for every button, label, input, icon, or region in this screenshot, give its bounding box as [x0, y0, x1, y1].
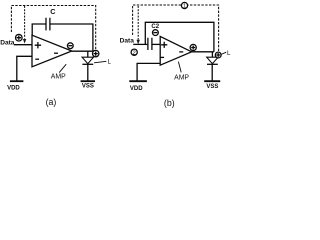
svg-text:(a): (a) [46, 97, 57, 107]
op-amp U1 triangle (a) [32, 35, 72, 67]
svg-text:VSS: VSS [82, 83, 94, 89]
svg-text:Data: Data [120, 38, 135, 45]
VDD rail bar (b) [129, 80, 147, 82]
svg-text:1: 1 [183, 4, 186, 10]
wire output (a) [72, 50, 93, 52]
capacitor C2 plates (b) [148, 38, 152, 50]
LED cathode bar (b) [207, 63, 218, 65]
svg-text:VDD: VDD [130, 86, 143, 92]
minus input symbol (a) [35, 58, 39, 60]
circled-plus node at LED (b) [215, 52, 221, 58]
VDD rail bar (a) [10, 80, 24, 82]
svg-text:AMP: AMP [51, 73, 66, 80]
VSS rail bar (a) [81, 80, 95, 82]
minus input wire (a) [17, 56, 32, 81]
dashed enclosure box (b) [133, 5, 219, 52]
LED L diode triangle (a) [82, 57, 93, 64]
plus input symbol (a) [35, 42, 41, 48]
LED wire down (b) [211, 52, 213, 57]
VSS rail bar (b) [204, 80, 220, 82]
circled-plus node at output (b) [190, 44, 196, 50]
plus input symbol (b) [161, 42, 167, 48]
node marker circled-2 below Data wire (b) [131, 49, 137, 56]
LED cathode bar (a) [82, 63, 93, 65]
capacitor C1 left leg / wire (a) [32, 24, 46, 36]
svg-text:(b): (b) [164, 98, 175, 108]
svg-text:C2: C2 [151, 24, 159, 30]
svg-text:AMP: AMP [174, 74, 189, 81]
LED stem wire (b) [211, 64, 213, 81]
output minus symbol inside triangle (a) [54, 52, 58, 54]
dashed annotation arrow (b) pointing to Data wire [137, 6, 140, 44]
wire output (b) [192, 51, 214, 53]
capacitor C1 plates (a) [46, 18, 50, 31]
LED wire down (a) [87, 51, 89, 57]
annotation line AMP to triangle (a) [59, 64, 66, 72]
svg-text:L: L [108, 59, 112, 66]
svg-text:Data: Data [0, 40, 15, 47]
svg-text:L: L [227, 50, 231, 57]
svg-text:2: 2 [133, 50, 136, 56]
node marker circled-plus (a) at Data input [15, 34, 22, 41]
op-amp U2 triangle (b) [160, 36, 191, 65]
dashed annotation arrow (a) pointing to Data wire [23, 6, 26, 44]
minus input symbol (b) [161, 56, 165, 58]
node marker circled-1 on top edge (b) [181, 2, 187, 9]
svg-text:VSS: VSS [206, 84, 218, 90]
capacitor C1 right leg (a) [50, 24, 93, 51]
wire Data to C2 (b) [133, 43, 147, 45]
svg-text:VDD: VDD [7, 86, 20, 92]
wire C2 to + input (b) [152, 43, 160, 45]
dashed enclosure box (a) [11, 6, 95, 50]
svg-text:C: C [50, 7, 55, 16]
circled-minus node at output (a) [67, 43, 73, 49]
circled-minus node under C2 (b) [153, 30, 159, 36]
annotation line to label L (b) [221, 52, 226, 54]
LED stem wire (a) [87, 64, 89, 81]
annotation line AMP to triangle (b) [178, 62, 181, 73]
wire Data to + input (a) [14, 44, 32, 46]
annotation line to label L (a) [94, 61, 106, 63]
feedback wire loop (b) [145, 22, 214, 52]
LED L diode triangle (b) [207, 57, 218, 64]
output minus symbol inside triangle (b) [179, 51, 183, 53]
circled-plus node at LED (a) [93, 50, 99, 56]
minus input wire (b) [137, 63, 160, 81]
